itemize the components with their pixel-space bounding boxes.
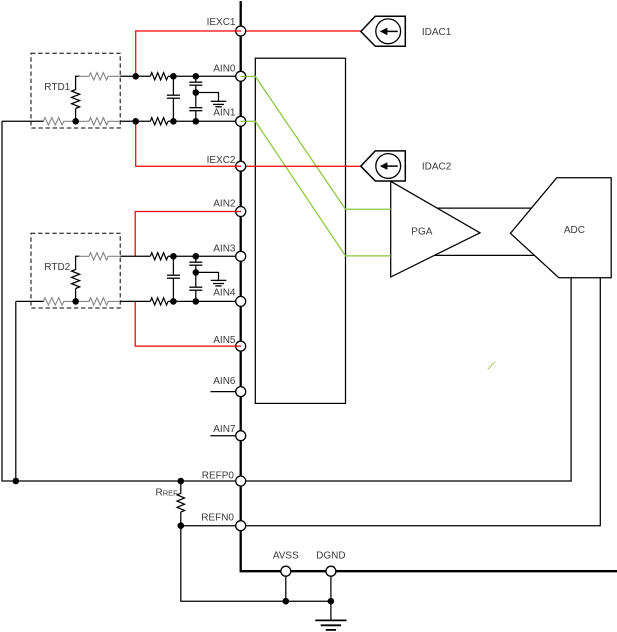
resistor RTD2 element — [72, 270, 80, 289]
capacitor diff C4 — [167, 256, 180, 301]
svg-text:AIN1: AIN1 — [213, 108, 236, 119]
wire AIN3 rail to pin — [168, 255, 241, 257]
pin AIN0 — [236, 71, 246, 81]
pin DGND — [326, 566, 336, 576]
pin REFP0 — [236, 476, 246, 486]
ADC block — [510, 178, 611, 278]
pin IEXC2 — [236, 161, 246, 171]
wire AIN4 rail to pin — [168, 300, 241, 302]
wire AIN7 stub — [210, 435, 240, 437]
pin AIN4 — [236, 296, 246, 306]
svg-text:REFP0: REFP0 — [202, 471, 235, 482]
wire RTD1 bottom rail to filter — [120, 120, 150, 122]
node RTD2 center junction — [72, 298, 79, 305]
wire green tick out of AIN1 — [241, 120, 246, 122]
svg-text:IEXC2: IEXC2 — [207, 155, 236, 166]
ground symbol main — [315, 620, 346, 630]
node CM mid RTD2 — [193, 269, 200, 276]
svg-text:IEXC1: IEXC1 — [207, 17, 236, 28]
node RTD1 center junction — [72, 118, 79, 125]
node left return junction — [13, 478, 20, 485]
capacitor CM bottom C6 — [189, 272, 202, 301]
wire red AIN2 net: AIN2 pin left and down to RTD2 top rail — [135, 212, 241, 257]
capacitor diff C1 — [167, 76, 180, 121]
wire REFN0 down to ground rail — [181, 526, 331, 602]
wire RTD1 return left vertical — [2, 121, 16, 481]
wire RTD2 bottom rail to filter — [120, 300, 150, 302]
svg-text:AIN5: AIN5 — [213, 335, 236, 346]
wire red tick into AIN5 — [235, 345, 241, 347]
svg-text:AIN4: AIN4 — [213, 288, 236, 299]
wire ground tap RTD2 filter — [196, 272, 219, 280]
pin AVSS — [281, 566, 291, 576]
svg-text:DGND: DGND — [316, 551, 345, 562]
resistor filter AIN4 — [150, 298, 168, 305]
svg-text:AIN6: AIN6 — [213, 376, 236, 387]
device pin bus — [241, 1, 617, 571]
resistor RTD2 lead top (gray) — [79, 253, 121, 260]
pin IEXC1 — [236, 26, 246, 36]
svg-text:RREF: RREF — [156, 488, 179, 499]
svg-text:RTD2: RTD2 — [44, 262, 70, 273]
resistor RTD1 lead bottom-left (gray) — [43, 118, 73, 125]
pin AIN1 — [236, 116, 246, 126]
wire RTD1 bottom stub — [75, 109, 77, 122]
node CM bottom rail — [193, 118, 200, 125]
wire RTD1 top elbow — [76, 76, 80, 90]
node RREF bottom — [178, 522, 185, 529]
resistor filter AIN3 — [150, 253, 168, 260]
PINS — [236, 26, 336, 576]
analog mux block — [255, 58, 345, 403]
resistor filter AIN0 — [150, 73, 168, 80]
wire RTD1 top rail to filter — [120, 75, 150, 77]
pin AIN2 — [236, 207, 246, 217]
node red junction bottom — [132, 118, 139, 125]
wire red tick into AIN2 — [235, 211, 241, 213]
svg-text:ADC: ADC — [564, 225, 585, 236]
wire RTD1 bottom rail left (black) — [2, 120, 44, 122]
wire RTD2 return left vertical — [15, 301, 17, 481]
ground symbol RTD1 filter — [211, 101, 227, 107]
node RREF top — [178, 478, 185, 485]
svg-text:PGA: PGA — [411, 227, 432, 238]
ground symbol RTD2 filter — [211, 280, 227, 286]
resistor filter AIN1 — [150, 118, 168, 125]
resistor RTD1 element — [72, 90, 80, 109]
resistor RTD2 lead bottom-left (gray) — [43, 298, 73, 305]
wire red IEXC1 net: rail junction up and right to IDAC1 — [136, 31, 362, 76]
resistor RTD1 lead top (gray) — [79, 73, 121, 80]
node CM bottom rail RTD2 — [193, 298, 200, 305]
wire red tick into IEXC2 — [235, 165, 241, 167]
capacitor CM bottom C3 — [189, 93, 202, 122]
wire ADC left pin vertical — [570, 278, 572, 482]
wire green mux route AIN1 to PGA — [241, 121, 391, 256]
RTD2 dashed box — [31, 233, 120, 308]
wire PGA output top to ADC — [434, 207, 533, 209]
resistor RREF — [177, 493, 184, 512]
wire green mux route AIN0 to PGA — [241, 76, 391, 209]
wire REFN0 horizontal — [181, 525, 601, 527]
stray green dotted mark — [488, 362, 495, 369]
node CM top rail RTD2 — [193, 253, 200, 260]
wire RTD2 bottom rail left (black) — [16, 300, 44, 302]
pin AIN7 — [236, 431, 246, 441]
wire RTD2 top elbow — [76, 256, 80, 270]
wire RREF bottom lead — [180, 512, 182, 526]
svg-text:AVSS: AVSS — [273, 551, 299, 562]
pin AIN6 — [236, 387, 246, 397]
wire red tick into IEXC1 — [235, 30, 241, 32]
svg-text:IDAC1: IDAC1 — [422, 27, 452, 38]
wire REFP0 horizontal — [16, 480, 571, 482]
wire red IEXC2 net: AIN1 rail junction down and right to IDAC2 — [136, 121, 362, 166]
svg-text:AIN3: AIN3 — [213, 243, 236, 254]
current source IDAC2 symbol — [361, 151, 406, 181]
wire PGA output bottom to ADC — [433, 254, 536, 256]
svg-text:REFN0: REFN0 — [201, 513, 234, 524]
svg-text:RTD1: RTD1 — [44, 82, 70, 93]
pin AIN3 — [236, 251, 246, 261]
svg-text:AIN0: AIN0 — [213, 64, 236, 75]
svg-text:AIN7: AIN7 — [213, 424, 236, 435]
wire RREF top lead — [180, 481, 182, 493]
RTD1 dashed box — [31, 53, 120, 128]
pin REFN0 — [236, 521, 246, 531]
wire green tick out of AIN0 — [241, 75, 246, 77]
resistor RTD1 lead bottom-right (gray) — [79, 118, 121, 125]
node C1 bottom — [170, 118, 177, 125]
op-amp U1 PGA triangle — [391, 181, 480, 277]
capacitor CM top C2 — [189, 76, 202, 92]
node C1 top — [170, 73, 177, 80]
wire ADC right pin vertical — [599, 278, 601, 527]
capacitor CM top C5 — [189, 256, 202, 272]
wire AIN6 stub — [210, 391, 240, 393]
node C4 top — [170, 253, 177, 260]
wire RTD2 bottom stub — [75, 289, 77, 302]
node C4 bottom — [170, 298, 177, 305]
wire ground tap RTD1 filter — [196, 93, 219, 102]
svg-text:AIN2: AIN2 — [213, 198, 236, 209]
node DGND ground junction — [328, 598, 335, 605]
wire AIN1 rail to pin — [168, 120, 241, 122]
wire RTD2 top rail to filter — [120, 255, 150, 257]
wire AVSS down stub — [285, 571, 287, 601]
pin AIN5 — [236, 341, 246, 351]
node red junction top — [132, 73, 139, 80]
node AVSS ground junction — [283, 598, 290, 605]
current source IDAC1 symbol — [361, 16, 406, 46]
svg-text:IDAC2: IDAC2 — [422, 162, 452, 173]
wire AIN0 rail to pin — [168, 75, 241, 77]
node CM top rail — [193, 73, 200, 80]
wire DGND down stub — [330, 571, 332, 620]
wire red AIN5 net: RTD2 bottom rail down and right to AIN5 pin — [135, 301, 241, 346]
resistor RTD2 lead bottom-right (gray) — [79, 298, 121, 305]
node CM mid — [193, 89, 200, 96]
